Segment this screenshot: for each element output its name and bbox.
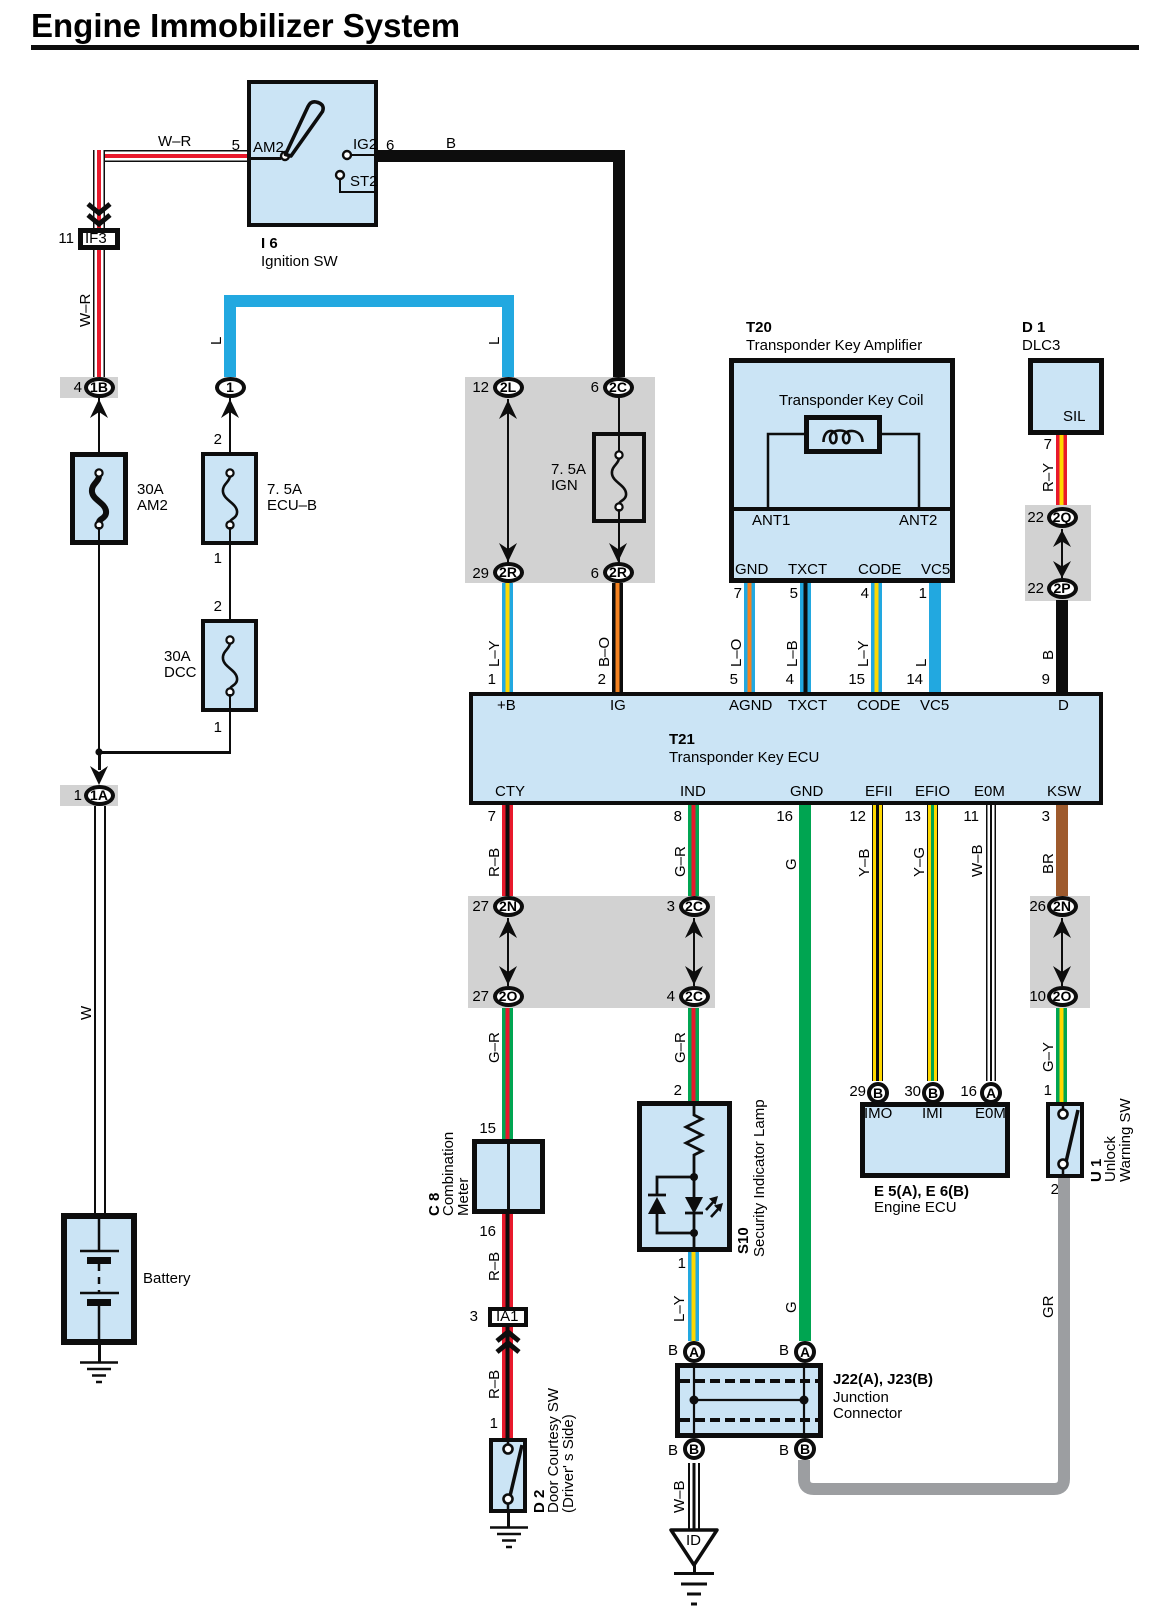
wire W-R horizontal from AM2 to corner <box>93 150 247 162</box>
pin 2 DCC <box>186 599 222 615</box>
connector 1B <box>84 377 115 398</box>
pin 26 2N <box>1010 899 1046 915</box>
wire L-Y CODE <box>871 583 882 692</box>
connector 2C <box>603 377 634 398</box>
combination meter box <box>472 1139 545 1214</box>
label Transponder Key ECU <box>669 750 819 766</box>
ground (ID) <box>673 1572 715 1608</box>
junction horizontal wire <box>98 751 231 754</box>
wire R-Y SIL to 2Q <box>1056 435 1067 508</box>
title <box>31 9 460 43</box>
junction connector box <box>675 1363 823 1438</box>
arrow down above 2C lower <box>684 966 704 986</box>
connector 2N right <box>1047 896 1078 917</box>
label AM2 <box>253 140 284 156</box>
pin 15 meter <box>460 1121 496 1137</box>
ID ground wire <box>693 1565 696 1574</box>
pin 8 IND <box>646 809 682 825</box>
label T21 <box>669 732 695 748</box>
label B at B right <box>779 1443 789 1459</box>
label GND <box>735 562 768 578</box>
junction internal wires <box>675 1363 823 1438</box>
pin 2 IG <box>570 672 606 688</box>
label W-B bottom <box>672 1480 687 1513</box>
pin 1 U1 <box>1016 1083 1052 1099</box>
label Junction <box>833 1390 889 1406</box>
fuse IGN box <box>592 432 646 523</box>
label E0M ecu <box>975 1106 1006 1122</box>
junction dot <box>92 745 106 759</box>
meter internal wire <box>507 1144 510 1209</box>
label C 8 / Combination Meter <box>427 1193 442 1216</box>
pin 2 ECU-B <box>186 432 222 448</box>
contact IG2 <box>340 148 380 162</box>
label B vert <box>1041 650 1056 660</box>
pin 3 IA1 <box>442 1309 478 1325</box>
wire W-B junction B to ID <box>688 1463 700 1530</box>
wire B horizontal from IG2 to corner <box>378 150 625 162</box>
wire 2L to 2R <box>507 399 509 563</box>
label CTY <box>495 784 525 800</box>
title underline <box>31 45 1139 50</box>
label D 2 / Door Courtesy SW <box>532 1490 547 1513</box>
unlock warning SW U1 box <box>1046 1102 1084 1178</box>
label R-B lower <box>487 1370 502 1399</box>
fuse DCC box <box>201 619 258 712</box>
arrow up below 2Q <box>1052 529 1072 547</box>
pin 27 2O <box>453 989 489 1005</box>
arrow up into 1B <box>89 398 109 418</box>
pin 22 2P <box>1008 581 1044 597</box>
fuse ECU-B box <box>201 452 258 545</box>
battery box <box>61 1213 137 1345</box>
label L-B <box>785 640 800 667</box>
pin 5 AGND <box>702 672 738 688</box>
label Connector <box>833 1406 902 1422</box>
pin 10 2O <box>1010 989 1046 1005</box>
engine ECU box <box>860 1102 1010 1178</box>
arrow down into 1A <box>89 766 109 786</box>
label G-Y <box>1041 1042 1056 1072</box>
label G-R S10 <box>673 1032 688 1063</box>
label IG2 <box>353 137 377 153</box>
label T20 <box>746 320 772 336</box>
wire B vertical down to 2C <box>613 150 625 378</box>
key symbol <box>280 98 332 158</box>
fuse AM2 element <box>85 467 113 531</box>
label ANT1 <box>752 513 790 529</box>
label G <box>784 858 799 870</box>
wire B 2P to T21 D <box>1056 600 1068 692</box>
label L-Y CODE <box>856 640 871 667</box>
pin 29 <box>453 566 489 582</box>
label B-O <box>597 637 612 667</box>
label CODE top <box>857 698 900 714</box>
label SIL <box>1063 409 1086 425</box>
pin 4 2C <box>639 989 675 1005</box>
arrow up below 2N right <box>1052 918 1072 938</box>
label L left <box>209 337 224 345</box>
gray block left <box>468 896 715 1008</box>
label I 6 <box>261 236 278 252</box>
label TXCT <box>788 562 827 578</box>
wire G-Y 2O to U1 <box>1056 1008 1067 1102</box>
label L VC5 <box>914 659 929 667</box>
connector 2Q <box>1047 507 1078 528</box>
T21 box <box>469 692 1103 805</box>
connector 2R (right) <box>603 562 634 583</box>
coil inductor <box>822 424 866 446</box>
arrow up into connector 1 <box>220 398 240 418</box>
wire 2N to 2O right <box>1061 918 1063 986</box>
label W-R vertical <box>78 294 93 327</box>
connector B IMI <box>922 1082 944 1104</box>
connector B right <box>794 1438 816 1460</box>
wire 2C to IGN fuse <box>618 398 620 452</box>
label Ignition SW <box>261 254 338 270</box>
wire connector1 to ECU-B fuse <box>229 398 232 470</box>
arrow up below 2C <box>684 918 704 938</box>
connector 2N left <box>493 896 524 917</box>
pin 1 DCC <box>186 720 222 736</box>
label R-Y <box>1041 463 1056 492</box>
label Transponder Key Amplifier <box>746 338 922 354</box>
pin 27 2N <box>453 899 489 915</box>
connector 2P <box>1047 578 1078 599</box>
connector A E0M <box>980 1082 1002 1104</box>
wire BR KSW <box>1056 805 1068 897</box>
door courtesy switch D2 box <box>489 1438 527 1513</box>
label E 5(A), E 6(B) <box>874 1184 969 1200</box>
pin 16 meter <box>460 1224 496 1240</box>
connector 2L <box>493 377 524 398</box>
S10 box <box>637 1101 732 1252</box>
label IG <box>610 698 626 714</box>
wire L-B TXCT <box>800 583 811 692</box>
wire AM2 internal lead <box>247 157 281 160</box>
pin 3 KSW <box>1014 809 1050 825</box>
label EFII <box>865 784 893 800</box>
label Y-G <box>912 847 927 877</box>
arrow up below 2L <box>498 399 518 419</box>
label D <box>1058 698 1069 714</box>
label 7.5A IGN <box>551 462 586 494</box>
pin 12 EFII <box>830 809 866 825</box>
pin 9 D <box>1014 672 1050 688</box>
wire B-O 2R to T21 IG <box>612 583 623 692</box>
connector B left <box>683 1438 705 1460</box>
pin 7 CTY <box>460 809 496 825</box>
label IND <box>680 784 706 800</box>
ignition SW box I6 <box>247 80 378 227</box>
pin 14 VC5 <box>887 672 923 688</box>
pin 2 U1 <box>1023 1182 1059 1198</box>
label Transponder Key Coil <box>779 393 924 409</box>
label AGND <box>729 698 772 714</box>
arrow down above 2O right <box>1052 966 1072 986</box>
wire L vertical into connector 1 <box>224 295 236 377</box>
wire Y-G EFIO <box>927 805 938 1081</box>
fuse AM2 30A box <box>70 452 128 545</box>
pin 11 E0M <box>943 809 979 825</box>
pin 30 IMI <box>885 1084 921 1100</box>
wire W-R vertical corner down to IF3 <box>93 150 105 229</box>
contact ST2 + stub wire <box>333 168 381 196</box>
pin 6 (2R right) <box>563 566 599 582</box>
pin 1 +B <box>460 672 496 688</box>
wire R-B CTY <box>502 805 513 897</box>
T20 inner divider line <box>729 507 955 511</box>
label W-R <box>158 134 191 150</box>
pin 16 E0M <box>941 1084 977 1100</box>
fuse IGN element <box>605 449 633 513</box>
label D 1 <box>1022 320 1045 336</box>
pin 6 (2C) <box>563 380 599 396</box>
arrow down above 2O <box>498 966 518 986</box>
pin 1 D2 <box>462 1416 498 1432</box>
wire fuse AM2 down to junction <box>98 527 101 753</box>
label ST2 <box>350 174 378 190</box>
wire 2C to 2C <box>693 918 695 986</box>
pin 1 S10 <box>650 1256 686 1272</box>
pin 6 IG2 <box>386 138 394 154</box>
pin 4 TXCT <box>758 672 794 688</box>
pin 15 CODE <box>829 672 865 688</box>
arrow up below 2N <box>498 918 518 938</box>
wire W-R IF3 to 1B <box>93 250 105 377</box>
wire DCC to junction line <box>229 694 232 753</box>
chevron arrow below IA1 <box>495 1330 521 1358</box>
connector 2R (left) <box>493 562 524 583</box>
label Engine ECU <box>874 1200 957 1216</box>
arrow down above 2R right <box>608 543 628 563</box>
pin 1 VC5 <box>891 586 927 602</box>
chevron arrow above IF3 <box>86 201 112 231</box>
label R-B mid <box>487 1252 502 1281</box>
gray band 1A <box>60 785 118 806</box>
wire G GND long <box>799 805 811 1341</box>
wire GR junction B to U1 pin 2 <box>790 1160 1080 1500</box>
label KSW <box>1047 784 1081 800</box>
wire 2Q to 2P <box>1061 529 1063 578</box>
label GND bottom <box>790 784 823 800</box>
label TXCT top <box>788 698 827 714</box>
wire R-B meter to IA1 <box>502 1214 513 1307</box>
connector 2O left <box>493 986 524 1007</box>
label 30A AM2 <box>137 482 168 514</box>
label +B <box>497 698 516 714</box>
label IMI <box>922 1106 943 1122</box>
connector B IMO <box>867 1082 889 1104</box>
label E0M <box>974 784 1005 800</box>
wire W-B E0M <box>986 805 996 1081</box>
gray band 1B <box>60 377 118 398</box>
wire Y-B EFII <box>872 805 883 1081</box>
label L-Y <box>487 640 502 667</box>
ground (battery) <box>79 1361 119 1385</box>
S10 internals: resistor, diode, LED <box>637 1101 732 1252</box>
pin 22 2Q <box>1008 510 1044 526</box>
wire R-B IA1 to D2 <box>502 1327 513 1438</box>
pin 29 IMO <box>830 1084 866 1100</box>
pin 7 GND <box>706 586 742 602</box>
wire L-O GND to AGND <box>744 583 755 692</box>
label IMO <box>864 1106 892 1122</box>
wire 2N to 2O <box>507 918 509 986</box>
gray block right <box>1030 896 1090 1008</box>
amplifier T20 box <box>729 358 955 583</box>
fuse DCC element <box>216 634 244 698</box>
label VC5 top <box>920 698 949 714</box>
wire L horizontal top <box>224 295 514 307</box>
pin 12 <box>453 380 489 396</box>
label B <box>446 136 456 152</box>
coil wire right <box>875 430 923 510</box>
label J22(A), J23(B) <box>833 1372 933 1388</box>
label Y-B <box>857 849 872 877</box>
label B at B left <box>668 1443 678 1459</box>
gray band 2Q/2P <box>1025 505 1091 601</box>
label ANT2 <box>899 513 937 529</box>
pin 5 TXCT <box>762 586 798 602</box>
battery ground wire <box>98 1345 101 1362</box>
battery symbol <box>67 1219 131 1339</box>
connector 2C upper <box>679 896 710 917</box>
label DLC3 <box>1022 338 1060 354</box>
U1 switch contacts <box>1046 1102 1084 1178</box>
label L-Y bottom <box>672 1295 687 1322</box>
label B at A right <box>779 1343 789 1359</box>
connector 2C lower <box>679 986 710 1007</box>
pin 16 GND <box>757 809 793 825</box>
label G-R meter <box>487 1032 502 1063</box>
fuse ECU-B element <box>216 467 244 531</box>
coil wire left <box>764 430 809 510</box>
pin 2 S10 <box>646 1083 682 1099</box>
wire junction to 1A arrow <box>98 752 101 770</box>
junction block 2 gray <box>465 377 655 583</box>
wire IGN fuse to 2R <box>618 509 620 563</box>
transponder key coil box <box>804 415 882 454</box>
pin 4 CODE <box>833 586 869 602</box>
label S10 / Security Indicator Lamp <box>736 1227 751 1254</box>
connector 2O right <box>1047 986 1078 1007</box>
pin 13 EFIO <box>885 809 921 825</box>
wire G-R IND <box>688 805 699 897</box>
pin 1 ECU-B <box>186 551 222 567</box>
wire W 1A to battery <box>94 806 106 1213</box>
label Battery <box>143 1271 191 1287</box>
wire L-Y S10 to junction A <box>688 1252 699 1341</box>
label L-O <box>729 639 744 667</box>
pin 5 AM2 <box>204 138 240 154</box>
D2 ground wire <box>507 1513 510 1527</box>
pin 7 SIL <box>1016 437 1052 453</box>
D2 switch contacts <box>489 1438 527 1513</box>
contact AM2 <box>279 150 291 162</box>
pin 11 IF3 <box>38 231 74 247</box>
label VC5 <box>921 562 950 578</box>
ground ID triangle <box>669 1528 719 1568</box>
label 7.5A ECU-B <box>267 482 317 514</box>
DLC3 box <box>1028 358 1104 435</box>
pin 1 <box>46 788 82 804</box>
label W-B <box>970 844 985 877</box>
label B at A left <box>668 1343 678 1359</box>
ground (D2) <box>489 1526 529 1550</box>
label G-R IND <box>673 846 688 877</box>
label R-B <box>487 848 502 877</box>
wire L VC5 <box>929 583 941 692</box>
connector A left <box>683 1341 705 1363</box>
label EFIO <box>915 784 950 800</box>
label GR <box>1041 1296 1056 1319</box>
arrow down above 2R <box>498 543 518 563</box>
label U 1 / Unlock Warning SW <box>1089 1159 1104 1182</box>
pin 4 <box>46 380 82 396</box>
wire ECU-B to DCC <box>229 527 232 637</box>
arrow down above 2P <box>1052 561 1072 579</box>
wire L-Y 2R to T21 +B <box>502 583 513 692</box>
wire L vertical into 2L <box>502 295 514 377</box>
connector A right <box>794 1341 816 1363</box>
connector IA1 <box>488 1307 528 1327</box>
label W vertical <box>79 1006 94 1020</box>
label G lower <box>784 1301 799 1313</box>
wire G-R 2C to S10 <box>688 1008 699 1101</box>
label BR <box>1041 853 1056 874</box>
label L right <box>487 337 502 345</box>
wire 1B to fuse AM2 <box>98 398 101 470</box>
connector IF3 <box>78 228 120 250</box>
label CODE <box>858 562 901 578</box>
pin 3 2C <box>639 899 675 915</box>
connector 1 (ECU-B) <box>215 377 246 398</box>
wire G-R 2O to meter <box>502 1008 513 1139</box>
connector 1A <box>84 785 115 806</box>
label 30A DCC <box>164 649 197 681</box>
